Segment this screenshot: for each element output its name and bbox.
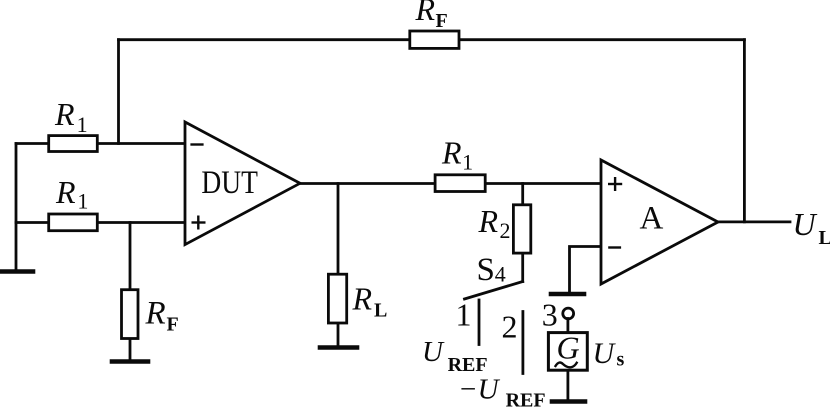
- svg-text:2: 2: [502, 309, 518, 345]
- DUT plus sign: [192, 216, 206, 230]
- resistor RF vertical: [122, 290, 139, 339]
- wire inverting input: [16, 142, 186, 145]
- svg-text:REF: REF: [448, 354, 488, 376]
- svg-text:1: 1: [77, 189, 88, 214]
- svg-text:2: 2: [500, 218, 511, 243]
- svg-text:1: 1: [462, 149, 473, 174]
- svg-text:L: L: [374, 299, 387, 321]
- ground A inverting: [551, 292, 584, 297]
- svg-text:1: 1: [77, 112, 88, 137]
- svg-text:4: 4: [495, 262, 506, 287]
- wire RL to ground: [337, 324, 340, 347]
- svg-text:R: R: [478, 203, 499, 239]
- wire right riser: [743, 40, 746, 222]
- svg-text:R: R: [145, 296, 166, 332]
- svg-text:F: F: [436, 10, 448, 32]
- svg-text:A: A: [640, 200, 664, 236]
- wire RF to ground: [129, 338, 132, 360]
- wire contact 3 to generator: [567, 319, 570, 333]
- svg-text:s: s: [617, 349, 625, 371]
- svg-text:L: L: [819, 227, 830, 249]
- op-amp U1 DUT triangle: [185, 122, 300, 245]
- wire R2 to pole: [521, 253, 524, 282]
- svg-text:DUT: DUT: [201, 165, 258, 201]
- svg-text:U: U: [422, 336, 445, 368]
- resistor RF top: [410, 31, 459, 48]
- svg-text:F: F: [167, 314, 179, 336]
- svg-text:R: R: [415, 0, 436, 27]
- wire noninverting input: [16, 221, 186, 224]
- svg-text:R: R: [54, 96, 75, 132]
- wire A inverting input: [570, 247, 602, 293]
- switch arm S4: [465, 282, 523, 300]
- switch contact 2 lead: [522, 312, 525, 374]
- DUT minus sign: [190, 143, 203, 145]
- wire generator to ground: [567, 370, 570, 400]
- switch contact 1 lead: [478, 300, 481, 345]
- A minus sign: [608, 246, 621, 248]
- resistor R1 top-left: [49, 136, 98, 152]
- svg-text:3: 3: [542, 297, 558, 333]
- ground RF: [112, 359, 148, 364]
- wire left vertical: [15, 144, 18, 271]
- generator G box: [548, 333, 587, 371]
- svg-text:G: G: [557, 330, 580, 366]
- ground left: [0, 269, 33, 274]
- svg-text:S: S: [477, 252, 495, 288]
- wire RF branch: [129, 223, 132, 291]
- svg-text:R: R: [352, 281, 373, 317]
- resistor RL: [328, 274, 346, 323]
- svg-text:R: R: [55, 174, 76, 210]
- svg-text:U: U: [593, 337, 617, 370]
- resistor R2: [513, 205, 530, 253]
- generator tilde: [556, 362, 577, 367]
- svg-text:REF: REF: [506, 390, 546, 409]
- resistor R1 middle: [435, 175, 485, 192]
- op-amp U2 A triangle: [601, 160, 718, 284]
- svg-text:U: U: [793, 206, 818, 242]
- wire A output: [718, 220, 791, 223]
- svg-text:−U: −U: [458, 374, 501, 406]
- wire RL branch: [337, 184, 340, 275]
- A plus sign: [608, 177, 622, 191]
- ground generator: [552, 399, 585, 404]
- resistor R1 bottom-left: [49, 214, 98, 231]
- wire R2 branch: [521, 184, 524, 206]
- wire DUT output: [299, 182, 601, 185]
- wire left riser: [117, 40, 120, 144]
- ground RL: [320, 345, 357, 350]
- wire top feedback: [119, 38, 745, 41]
- switch contact 3 circle: [563, 308, 574, 319]
- svg-text:1: 1: [456, 297, 472, 333]
- svg-text:R: R: [441, 135, 462, 171]
